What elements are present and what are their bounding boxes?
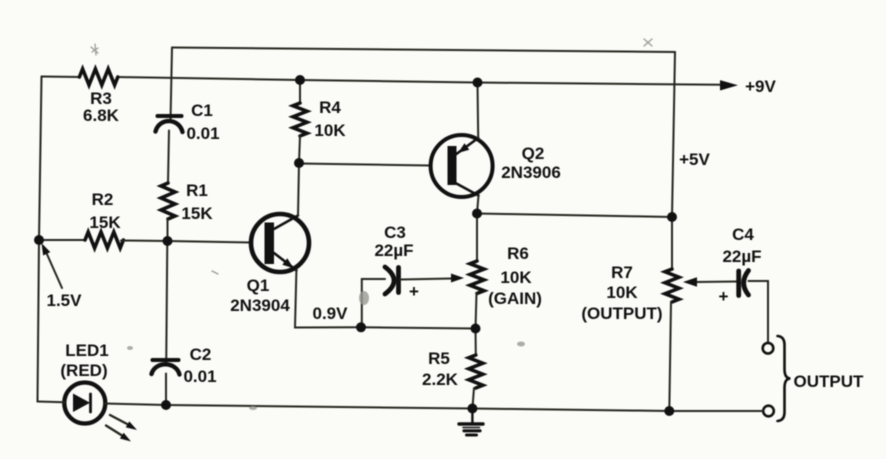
capacitor C2 (152, 360, 180, 375)
wire: top feedback wire (172, 48, 675, 53)
transistor Q2 (431, 135, 493, 197)
svg-text:15K: 15K (89, 213, 121, 232)
terminal: output hot (763, 343, 774, 354)
svg-text:C3: C3 (384, 223, 406, 242)
node: R4 top (295, 75, 305, 85)
wire: R6 bottom to node (476, 293, 477, 329)
node: R6 bottom (471, 324, 481, 334)
node: 1.5V (34, 235, 44, 245)
brace output (778, 336, 791, 421)
wire+arrow: C3 to R6 wiper (400, 274, 464, 283)
svg-text:Q2: Q2 (522, 144, 545, 163)
svg-text:0.01: 0.01 (183, 367, 216, 386)
wire: R2 to Q1 base node and on to Q1 base (121, 241, 252, 243)
wire: Q2 collector down to node (477, 196, 479, 214)
svg-text:R2: R2 (92, 190, 114, 209)
arrow: LED light ray 2 (106, 426, 131, 442)
scan artifact marks (91, 39, 652, 274)
wire: R7 top (671, 217, 673, 269)
node: R5 ground (467, 404, 477, 414)
node: R7 ground (664, 406, 674, 416)
wire: Q1 base node down to C2 (166, 241, 167, 365)
svg-text:R7: R7 (611, 263, 633, 282)
svg-text:C4: C4 (732, 225, 754, 244)
wire: R7 bottom to ground rail node (669, 302, 671, 411)
svg-text:R4: R4 (319, 98, 341, 117)
wire: R5 bottom to ground rail (472, 388, 474, 409)
wire: R4 bottom to node (299, 136, 300, 163)
node: C2 ground (161, 400, 171, 410)
svg-text:2.2K: 2.2K (422, 370, 459, 389)
capacitor C4 (739, 271, 749, 296)
wire: +9V rail horizontal (42, 77, 724, 85)
wire: R4 top from +9V rail (299, 80, 301, 103)
wire: emitter node to R6 bottom node (361, 327, 476, 328)
wire: C2 bottom to ground rail (165, 374, 167, 406)
wire: R5 top (475, 329, 477, 356)
ground (459, 409, 483, 436)
capacitor C3 (385, 267, 399, 294)
svg-text:Q1: Q1 (247, 276, 270, 295)
svg-text:15K: 15K (181, 204, 213, 223)
svg-text:(GAIN): (GAIN) (488, 289, 542, 308)
potentiometer R6 (470, 261, 484, 293)
svg-text:22µF: 22µF (374, 241, 413, 260)
wire: C1 bottom to R1 top (168, 131, 169, 184)
wire: ground rail bottom (38, 402, 764, 412)
wire: 1.5V node to R2 (39, 239, 85, 241)
svg-text:R6: R6 (507, 244, 529, 263)
arrow: LED light ray 1 (110, 415, 137, 430)
svg-text:6.8K: 6.8K (83, 106, 120, 125)
svg-text:R1: R1 (186, 181, 208, 200)
resistor R3 (79, 69, 117, 85)
LED LED1 (64, 383, 105, 424)
potentiometer R7 (665, 269, 679, 302)
svg-text:(OUTPUT): (OUTPUT) (581, 304, 662, 323)
svg-text:+9V: +9V (745, 77, 776, 96)
power arrow +9V (720, 80, 738, 90)
wire: left rail vertical (R3 left / 1.5V node / LED anode) (38, 77, 42, 402)
svg-text:+: + (719, 287, 729, 306)
svg-text:2N3906: 2N3906 (501, 163, 561, 182)
svg-text:1.5V: 1.5V (47, 291, 83, 310)
resistor R4 (293, 103, 307, 136)
node: R7 top (667, 212, 677, 222)
terminal: output ground (763, 406, 774, 417)
wire: Q1 collector up to R4 bottom node (298, 163, 299, 216)
svg-text:+5V: +5V (679, 150, 710, 169)
svg-text:10K: 10K (500, 268, 532, 287)
node: R4 bottom (294, 158, 304, 168)
svg-text:LED1: LED1 (65, 341, 108, 360)
wire: R6 top from Q2 collector node (476, 214, 478, 262)
node: Q1 emitter (356, 322, 366, 332)
svg-text:0.9V: 0.9V (313, 304, 349, 323)
arrow: 1.5V pointer (42, 243, 63, 288)
node: Q2 collector (472, 209, 482, 219)
svg-text:C1: C1 (191, 101, 213, 120)
svg-text:+: + (409, 282, 419, 301)
resistor R5 (469, 355, 483, 388)
svg-text:R5: R5 (428, 349, 450, 368)
svg-text:C2: C2 (190, 345, 212, 364)
svg-text:22µF: 22µF (722, 247, 761, 266)
capacitor C1 (156, 116, 183, 132)
wire: Q2 emitter up to +9V rail (477, 83, 480, 139)
svg-text:10K: 10K (606, 283, 638, 302)
wire: Q1 emitter down and across to emitter node (295, 270, 361, 327)
svg-text:OUTPUT: OUTPUT (794, 372, 865, 391)
resistor R1 (161, 183, 175, 219)
node: Q1 base (163, 236, 173, 246)
svg-text:(RED): (RED) (60, 361, 107, 380)
wire: C4 to output corner and down (749, 281, 769, 343)
svg-text:0.01: 0.01 (186, 124, 219, 143)
wire: right feedback vertical down to R7 top node (672, 52, 675, 217)
svg-text:2N3904: 2N3904 (230, 296, 290, 315)
wire: C1 branch vertical from feedback to C1 (171, 48, 173, 122)
transistor Q1 (251, 214, 309, 272)
node: Q2 emitter on +9V (473, 78, 483, 88)
wire: emitter node up to C3 (362, 279, 385, 327)
wire: R1 bottom to base node (167, 219, 169, 241)
wire: R4 node to Q2 base (299, 164, 431, 166)
wire+arrow: R7 wiper from C4 (683, 277, 737, 286)
resistor R2 (85, 232, 123, 248)
wire: Q2 collector node across to R7 top node (477, 214, 672, 218)
svg-text:10K: 10K (314, 121, 346, 140)
